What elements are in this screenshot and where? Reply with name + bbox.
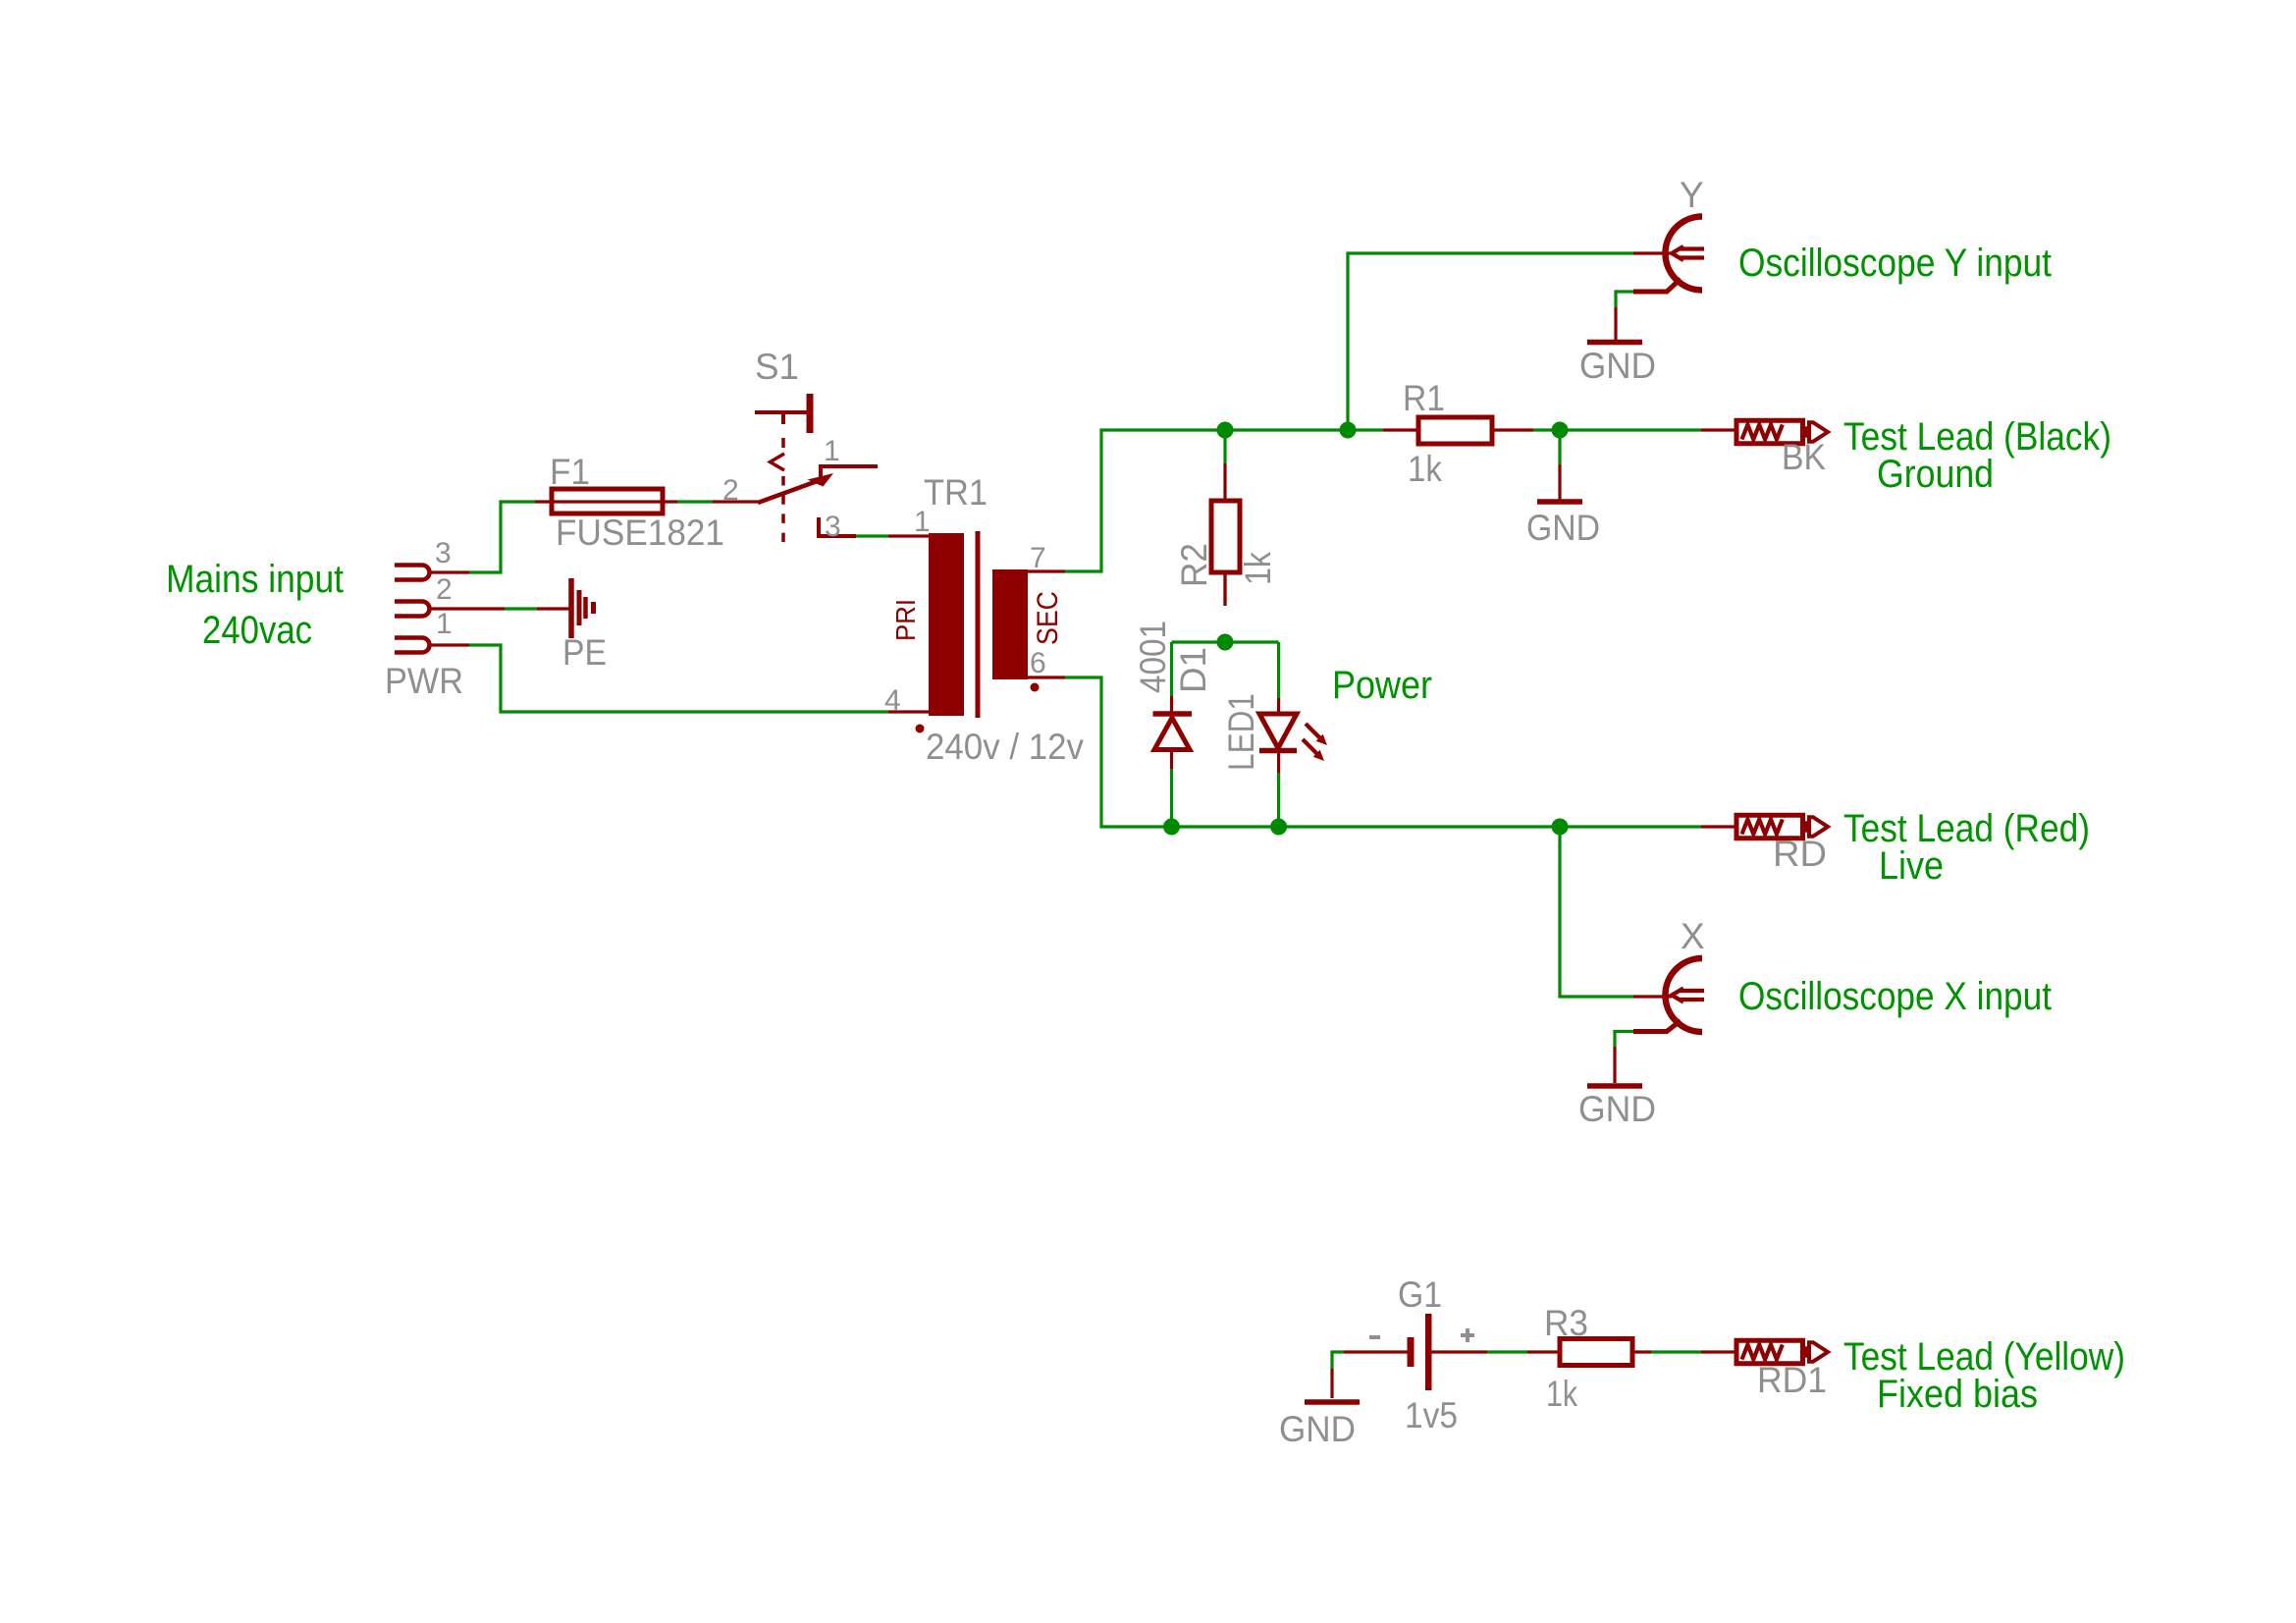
- svg-text:3: 3: [435, 537, 452, 569]
- svg-text:F1: F1: [550, 452, 590, 492]
- svg-text:4001: 4001: [1133, 621, 1173, 693]
- svg-text:3: 3: [825, 511, 841, 543]
- svg-text:D1: D1: [1173, 647, 1213, 693]
- svg-text:Mains input: Mains input: [166, 558, 344, 601]
- svg-text:Y: Y: [1680, 175, 1704, 215]
- svg-text:FUSE1821: FUSE1821: [556, 513, 724, 553]
- svg-text:1k: 1k: [1408, 449, 1442, 489]
- svg-text:TR1: TR1: [924, 472, 988, 513]
- svg-text:Oscilloscope X input: Oscilloscope X input: [1738, 975, 2052, 1018]
- svg-text:6: 6: [1030, 647, 1046, 679]
- svg-text:Live: Live: [1879, 844, 1944, 888]
- svg-text:240v / 12v: 240v / 12v: [926, 727, 1084, 767]
- svg-text:Ground: Ground: [1877, 453, 1994, 496]
- svg-text:S1: S1: [755, 347, 799, 387]
- svg-text:RD: RD: [1773, 834, 1827, 874]
- svg-text:Oscilloscope Y input: Oscilloscope Y input: [1738, 242, 2052, 285]
- svg-text:1k: 1k: [1238, 552, 1278, 585]
- svg-text:2: 2: [436, 573, 453, 606]
- svg-text:R2: R2: [1174, 543, 1214, 587]
- svg-text:GND: GND: [1526, 508, 1600, 548]
- svg-text:4: 4: [884, 684, 901, 717]
- svg-text:SEC: SEC: [1032, 591, 1064, 645]
- svg-text:GND: GND: [1279, 1409, 1356, 1449]
- svg-text:1v5: 1v5: [1405, 1395, 1458, 1435]
- svg-text:1: 1: [436, 608, 453, 640]
- svg-text:PE: PE: [562, 632, 607, 673]
- svg-text:Power: Power: [1332, 664, 1432, 707]
- svg-text:PWR: PWR: [385, 661, 463, 701]
- svg-text:G1: G1: [1398, 1274, 1442, 1315]
- svg-text:BK: BK: [1782, 437, 1826, 477]
- svg-text:LED1: LED1: [1221, 693, 1261, 771]
- svg-text:Fixed bias: Fixed bias: [1877, 1373, 2038, 1416]
- svg-text:PRI: PRI: [890, 599, 921, 641]
- svg-text:R1: R1: [1403, 378, 1445, 418]
- svg-text:240vac: 240vac: [202, 609, 312, 652]
- svg-text:RD1: RD1: [1757, 1360, 1827, 1400]
- svg-text:1k: 1k: [1546, 1374, 1577, 1414]
- svg-text:1: 1: [824, 435, 840, 467]
- svg-text:2: 2: [722, 474, 739, 507]
- svg-text:X: X: [1681, 916, 1705, 956]
- svg-text:GND: GND: [1578, 1089, 1656, 1129]
- svg-text:1: 1: [914, 506, 931, 538]
- svg-text:R3: R3: [1544, 1303, 1588, 1343]
- svg-text:GND: GND: [1579, 346, 1656, 386]
- svg-text:7: 7: [1030, 542, 1046, 574]
